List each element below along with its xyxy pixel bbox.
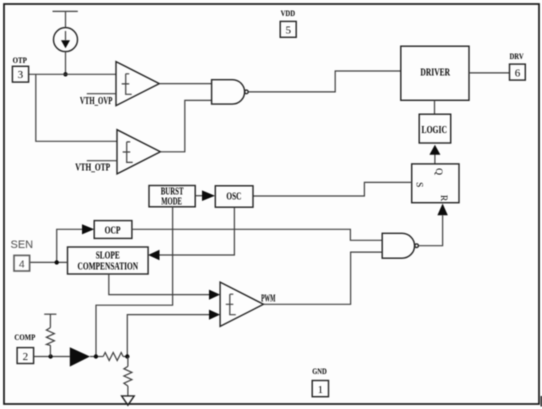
svg-text:OSC: OSC (226, 192, 241, 203)
wire: burst sense riser (node B to BURST MODE) (96, 207, 173, 357)
NAND gate U3 (212, 80, 249, 104)
svg-text:GND: GND (312, 366, 327, 376)
ground (open triangle) (122, 396, 135, 405)
OSC box (215, 186, 253, 207)
node C (125, 354, 129, 358)
svg-text:3: 3 (18, 69, 24, 81)
wire: R2 to node C (123, 356, 128, 358)
wire: R3 to ground (127, 386, 129, 396)
SLOPE COMPENSATION box (68, 247, 149, 274)
svg-text:R: R (438, 195, 448, 202)
tick mark bottom right (541, 396, 542, 407)
arrow: into OCP (82, 224, 94, 234)
wire: bar to current source (65, 11, 67, 27)
svg-text:S: S (414, 182, 424, 187)
current source I1 top bar (53, 10, 78, 12)
svg-text:OTP: OTP (13, 55, 27, 65)
wire: U3 output to DRIVER (248, 71, 400, 92)
node SEN junction (55, 260, 59, 264)
svg-text:1: 1 (318, 384, 324, 396)
svg-text:SEN: SEN (11, 239, 34, 251)
resistor R1 top bar (44, 313, 56, 315)
resistor R2 (horizontal) (103, 353, 123, 361)
wire: SEN junction riser to OCP (57, 229, 84, 262)
svg-text:2: 2 (23, 351, 29, 363)
OCP box (94, 221, 132, 239)
arrow: SR latch Q to LOGIC (429, 145, 440, 164)
comparator U2 (OTP) (117, 130, 160, 174)
svg-text:COMP: COMP (14, 332, 35, 342)
wire: OSC bottom to slope comp arrow (160, 207, 235, 255)
wire: U1 output to NAND U3 (159, 83, 211, 85)
arrow: into SLOPE COMPENSATION (148, 250, 159, 260)
wire: VTH_OVP stub (87, 93, 116, 95)
svg-text:5: 5 (285, 25, 291, 37)
wire: OTP pin to comparator U1 (29, 73, 116, 75)
comparator U1 (OVP) (116, 62, 159, 106)
pin DRV 6 box (510, 64, 526, 80)
wire: SEN pin to SLOPE COMPENSATION (30, 261, 68, 263)
NAND gate U7 (382, 233, 418, 258)
svg-text:OCP: OCP (105, 225, 121, 236)
SR latch U5 (412, 164, 459, 203)
wire: DRIVER to DRV pin (469, 72, 510, 74)
BURST MODE box (149, 186, 195, 208)
svg-text:VTH_OVP: VTH_OVP (80, 96, 113, 107)
resistor R3 (vertical to ground) (124, 366, 132, 386)
svg-text:MODE: MODE (161, 196, 182, 207)
wire: PWM output to NAND U7 input 2 (264, 252, 383, 304)
arrow: BURST MODE to OSC (195, 190, 215, 201)
svg-text:PWM: PWM (261, 294, 276, 305)
LOGIC box U6 (419, 114, 451, 143)
wire: OSC to SR latch S input (253, 182, 412, 196)
pin OTP 3 box (12, 66, 28, 82)
svg-text:VTH_OTP: VTH_OTP (75, 163, 110, 174)
DRIVER box U4 (401, 46, 469, 100)
arrow: into PWM comparator input 1 (209, 290, 220, 300)
svg-text:SLOPE: SLOPE (96, 250, 120, 261)
wire: node C down to resistor R3 (127, 357, 129, 367)
arrow: into PWM comparator input 2 (209, 310, 220, 320)
node A (junction under current source) (63, 72, 67, 76)
wire: current source to node A (65, 52, 67, 75)
pin SEN 4 box (14, 255, 30, 271)
current source I1 (54, 28, 78, 52)
wire: buffer to node B (90, 356, 103, 358)
svg-text:4: 4 (19, 258, 25, 270)
svg-text:COMPENSATION: COMPENSATION (78, 261, 139, 272)
svg-text:6: 6 (515, 67, 521, 79)
pin GND 1 box (312, 381, 328, 397)
wire: COMP pin to buffer (34, 356, 70, 358)
pin VDD 5 box (280, 21, 296, 37)
wire: U2 output riser to NAND U3 (160, 100, 211, 151)
svg-text:Q: Q (433, 168, 443, 175)
wire: U7 output riser to SR latch R (419, 215, 443, 245)
svg-text:DRIVER: DRIVER (420, 68, 450, 79)
arrow: into SR latch R input (437, 204, 447, 216)
node B (94, 354, 98, 358)
wire: node C riser to PWM input 2 (127, 315, 209, 357)
node COMP junction (48, 354, 52, 358)
wire: SLOPE COMPENSATION output to PWM input (109, 274, 209, 295)
svg-text:DRV: DRV (510, 51, 525, 61)
pin COMP 2 box (17, 348, 33, 364)
resistor R1 (vertical above COMP junction) (46, 314, 54, 356)
wire: VTH_OTP stub (87, 160, 117, 162)
wire: OCP output to NAND U7 input 1 (132, 229, 382, 240)
PWM comparator U8 (220, 282, 263, 326)
wire: DRIVER to LOGIC (434, 100, 436, 114)
svg-text:VDD: VDD (281, 8, 296, 18)
svg-text:LOGIC: LOGIC (422, 125, 448, 136)
wire: branch down to comparator U2 (36, 74, 117, 141)
buffer A1 (filled triangle) (70, 347, 90, 366)
